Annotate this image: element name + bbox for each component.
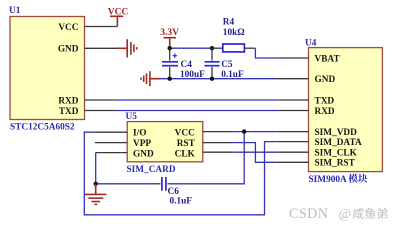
- wire R4 to VBAT step: [255, 48, 276, 58]
- U5 VCC pin: [203, 131, 232, 133]
- svg-text:U4: U4: [305, 38, 317, 48]
- svg-text:STC12C5A60S2: STC12C5A60S2: [10, 123, 75, 133]
- U1 TXD pin: [85, 110, 116, 112]
- wire U5.GND down to C6 rail: [95, 153, 97, 184]
- svg-text:0.1uF: 0.1uF: [170, 197, 193, 207]
- U5 CLK pin: [203, 151, 232, 153]
- U4 GND pin: [277, 78, 309, 80]
- node junction U5 GND / earth: [94, 182, 98, 186]
- U1 GND pin: [85, 47, 117, 49]
- resistor R4: [212, 44, 255, 52]
- capacitor C4 (polarized): [162, 48, 178, 78]
- svg-text:@: @: [339, 206, 351, 221]
- svg-text:CLK: CLK: [175, 149, 196, 159]
- U4 part name Chinese characters (module): [348, 174, 367, 183]
- svg-text:VBAT: VBAT: [315, 54, 341, 64]
- svg-text:RXD: RXD: [58, 96, 78, 106]
- svg-text:U1: U1: [9, 6, 21, 16]
- U5 GND pin: [96, 152, 128, 154]
- node junction C4/GND rail: [168, 77, 172, 81]
- op-amp U5 chip body SIM_CARD: [127, 122, 203, 162]
- wire U5.RST step down to U4.SIM_RST: [232, 143, 277, 163]
- U4 RXD pin: [277, 110, 309, 112]
- power symbol VCC: [108, 7, 129, 26]
- svg-text:GND: GND: [133, 149, 154, 159]
- wire U1.RXD to U4.TXD: [116, 99, 277, 101]
- U4 SIM_VDD pin: [277, 131, 309, 133]
- U4 VBAT pin: [277, 57, 309, 59]
- wire U5.I/O down around to U4.SIM_DATA: [84, 132, 276, 215]
- svg-text:TXD: TXD: [315, 96, 335, 106]
- U4 SIM_DATA pin: [277, 141, 309, 143]
- op-amp U4 chip body SIM900A: [309, 48, 383, 172]
- svg-text:C4: C4: [181, 60, 193, 70]
- svg-text:GND: GND: [315, 75, 336, 85]
- power port 3.3V: [160, 28, 179, 48]
- op-amp U1 chip body STC12C5A60S2: [10, 17, 85, 120]
- svg-text:SIM900A: SIM900A: [309, 175, 348, 185]
- wire 3.3V rail: [170, 47, 212, 49]
- U5 I/O pin: [95, 131, 128, 133]
- svg-text:SIM_DATA: SIM_DATA: [315, 138, 362, 148]
- node junction C5/GND rail: [210, 77, 214, 81]
- node junction C6/SIM_VDD: [242, 129, 246, 133]
- wire C6 left segment: [96, 183, 151, 185]
- capacitor C6: [151, 177, 172, 191]
- U4 SIM_RST pin: [277, 161, 309, 163]
- wire U5.CLK to U4.SIM_CLK: [232, 151, 277, 153]
- svg-text:SIM_CARD: SIM_CARD: [127, 165, 176, 175]
- svg-text:VCC: VCC: [175, 129, 195, 139]
- svg-text:R4: R4: [223, 17, 235, 27]
- svg-text:SIM_CLK: SIM_CLK: [315, 149, 358, 159]
- svg-text:VCC: VCC: [58, 23, 78, 33]
- U4 TXD pin: [277, 99, 309, 101]
- U5 VPP pin: [95, 142, 127, 144]
- wire U5.VCC to U4.SIM_VDD: [232, 131, 277, 133]
- svg-text:RXD: RXD: [315, 107, 335, 117]
- svg-text:TXD: TXD: [59, 107, 79, 117]
- svg-text:I/O: I/O: [133, 129, 146, 139]
- node junction 3.3V/C4: [168, 46, 172, 50]
- svg-text:U5: U5: [126, 112, 138, 122]
- U1 RXD pin: [85, 99, 116, 101]
- capacitor C5: [205, 48, 220, 78]
- power ground symbol (3.3V decoupling rail): [141, 71, 161, 86]
- svg-text:C5: C5: [221, 60, 233, 70]
- svg-text:SIM_VDD: SIM_VDD: [315, 128, 358, 138]
- wire U1.TXD to U4.RXD: [116, 110, 277, 112]
- U5 RST pin: [203, 142, 232, 144]
- node junction 3.3V/C5: [210, 46, 214, 50]
- svg-text:SIM_RST: SIM_RST: [315, 159, 356, 169]
- svg-text:CSDN: CSDN: [289, 206, 328, 222]
- svg-text:C6: C6: [168, 187, 180, 197]
- U1 VCC pin: [85, 26, 118, 28]
- wire GND rail to U4 GND: [161, 78, 277, 80]
- svg-text:VCC: VCC: [108, 7, 129, 17]
- svg-text:VPP: VPP: [133, 139, 151, 149]
- svg-text:3.3V: 3.3V: [160, 28, 179, 38]
- U4 SIM_CLK pin: [277, 151, 309, 153]
- svg-text:GND: GND: [58, 45, 79, 55]
- svg-text:10kΩ: 10kΩ: [223, 28, 245, 38]
- svg-text:RST: RST: [177, 139, 196, 149]
- power ground symbol (U1 GND pin): [117, 39, 137, 57]
- wire C6 right segment up to SIM_VDD net: [172, 132, 245, 184]
- earth ground symbol: [85, 184, 106, 205]
